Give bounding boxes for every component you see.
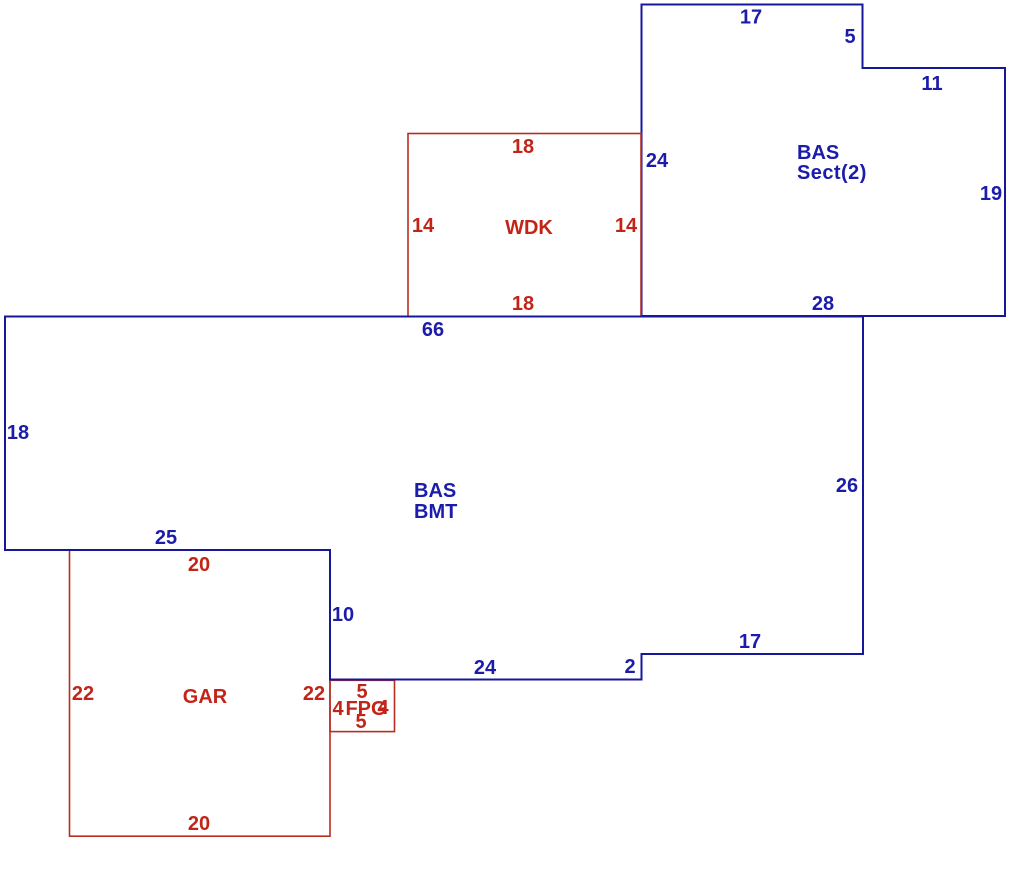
svg-text:25: 25 [155, 527, 177, 549]
svg-text:BAS: BAS [414, 480, 456, 502]
svg-text:66: 66 [422, 319, 444, 341]
svg-text:22: 22 [72, 683, 94, 705]
svg-text:4: 4 [377, 697, 389, 719]
svg-text:22: 22 [303, 683, 325, 705]
svg-text:5: 5 [844, 26, 855, 48]
svg-text:18: 18 [7, 422, 29, 444]
svg-text:18: 18 [512, 293, 534, 315]
svg-text:24: 24 [474, 657, 497, 679]
svg-text:20: 20 [188, 554, 210, 576]
svg-text:19: 19 [980, 183, 1002, 205]
svg-text:26: 26 [836, 475, 858, 497]
svg-text:17: 17 [740, 7, 762, 29]
svg-text:14: 14 [412, 215, 435, 237]
svg-text:2: 2 [624, 656, 635, 678]
svg-text:20: 20 [188, 813, 210, 835]
svg-text:4: 4 [332, 698, 344, 720]
svg-text:28: 28 [812, 293, 834, 315]
svg-text:BAS: BAS [797, 142, 839, 164]
svg-text:10: 10 [332, 604, 354, 626]
svg-text:24: 24 [646, 150, 669, 172]
svg-text:11: 11 [921, 73, 942, 95]
svg-text:Sect(2): Sect(2) [797, 162, 867, 184]
svg-text:14: 14 [615, 215, 638, 237]
svg-text:BMT: BMT [414, 501, 457, 523]
svg-text:GAR: GAR [183, 686, 228, 708]
svg-text:18: 18 [512, 136, 534, 158]
svg-text:17: 17 [739, 631, 761, 653]
svg-text:WDK: WDK [505, 217, 553, 239]
svg-text:5: 5 [355, 711, 366, 733]
